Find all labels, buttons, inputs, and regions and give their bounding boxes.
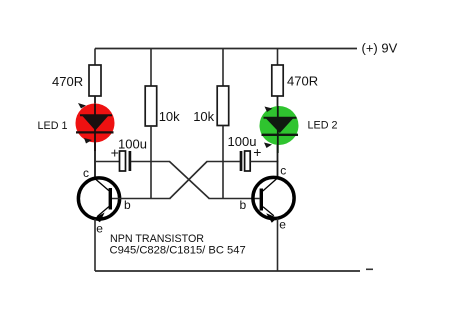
battery minus dash <box>366 268 373 270</box>
wire crossover diagonal C2 to Q1 base <box>170 162 207 199</box>
LED D1 cathode mark <box>84 138 92 144</box>
capacitor C1 100u plates <box>120 151 130 171</box>
svg-text:C945/C828/C1815/ BC 547: C945/C828/C1815/ BC 547 <box>110 244 246 256</box>
transistor Q1 <box>78 178 119 222</box>
svg-text:10k: 10k <box>193 109 214 124</box>
wire R3 to Q2 base line <box>222 126 224 200</box>
svg-text:e: e <box>279 218 286 232</box>
capacitor C2 100u plates <box>241 151 250 171</box>
resistor R1 470R body <box>89 65 101 96</box>
svg-text:b: b <box>240 198 247 212</box>
transistor Q2 <box>253 177 294 222</box>
resistor R4 470R body <box>272 65 283 96</box>
wire top rail to R2 <box>150 49 152 88</box>
svg-text:100u: 100u <box>118 136 147 151</box>
wire R2 to Q1 base line <box>150 126 152 199</box>
LED D1 anode mark <box>78 103 86 109</box>
svg-text:LED 1: LED 1 <box>38 120 68 132</box>
svg-text:470R: 470R <box>52 74 83 89</box>
wire C2 to Q2 collector node <box>251 161 279 163</box>
svg-text:c: c <box>83 166 89 180</box>
wire Q2 base segment <box>209 198 260 200</box>
svg-text:10k: 10k <box>159 109 180 124</box>
svg-text:b: b <box>124 198 131 212</box>
LED D1 red body <box>76 104 115 143</box>
svg-text:NPN TRANSISTOR: NPN TRANSISTOR <box>110 233 204 245</box>
LED D2 cathode mark <box>264 143 272 149</box>
resistor R2 10k body <box>145 86 157 126</box>
wire top rail to R4 <box>277 49 279 67</box>
svg-text:e: e <box>96 221 103 235</box>
svg-text:100u: 100u <box>228 134 257 149</box>
wire C1 to crossover <box>131 161 170 163</box>
wire Q1 collector node to C1 <box>94 161 119 163</box>
LED D2 anode mark <box>265 107 273 113</box>
wire +9V top rail <box>95 48 357 50</box>
svg-text:470R: 470R <box>287 74 318 89</box>
wire R1 to LED1 and Q1 collector <box>94 96 96 178</box>
LED D1 diode symbol <box>76 104 114 151</box>
LED D2 diode symbol <box>262 106 299 153</box>
svg-text:c: c <box>280 164 286 178</box>
resistor R3 10k body <box>217 86 229 126</box>
svg-text:(+) 9V: (+) 9V <box>362 40 398 55</box>
wire top rail to R1 <box>94 49 96 67</box>
wire crossover diagonal C1 to Q2 base <box>170 162 210 199</box>
LED D2 green body <box>260 106 299 145</box>
wire crossover to C2 <box>207 161 240 163</box>
wire R4 to LED2 and Q2 collector <box>277 96 279 178</box>
wire top rail to R3 <box>222 49 224 88</box>
wire Q2 emitter to bottom rail <box>277 219 279 272</box>
svg-text:LED 2: LED 2 <box>308 120 338 132</box>
wire bottom rail <box>95 270 360 272</box>
wire Q1 base segment <box>112 198 171 200</box>
wire Q1 emitter to bottom rail <box>94 219 96 271</box>
